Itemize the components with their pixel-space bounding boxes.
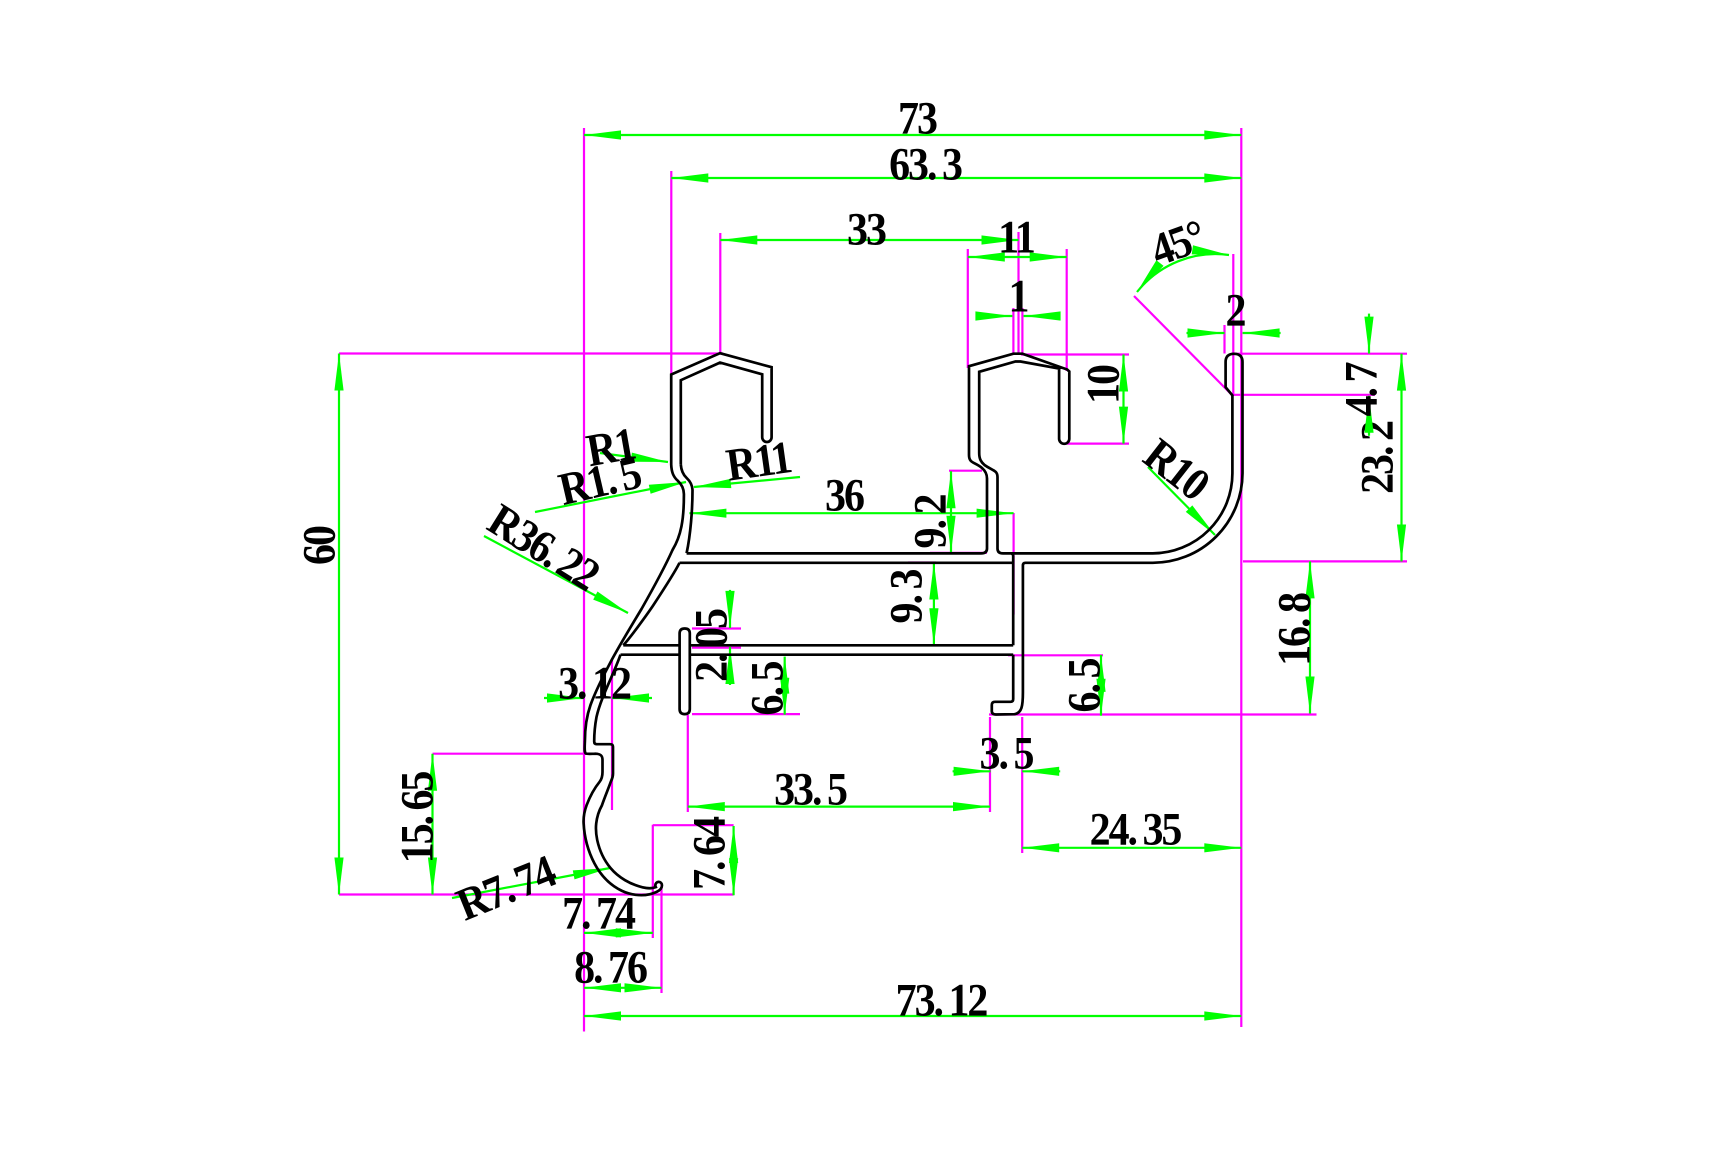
dimension 9.3 xyxy=(933,563,935,646)
svg-text:3. 5: 3. 5 xyxy=(980,728,1034,779)
profile: inner surface of R36.22 curve (upper) xyxy=(681,465,693,554)
dimension 7.74 xyxy=(584,932,653,934)
dimension 3.12 (wall) xyxy=(544,697,584,699)
profile: lower web xyxy=(623,644,678,647)
dimension 3.5 (foot width) xyxy=(953,770,991,772)
svg-text:33. 5: 33. 5 xyxy=(774,764,847,815)
leader R11 fillet xyxy=(694,477,800,487)
dimension 23.2 xyxy=(1400,354,1402,562)
profile: inner surface of R36.22 curve (lower) xyxy=(623,563,679,646)
svg-text:2: 2 xyxy=(1226,285,1246,336)
svg-text:6. 5: 6. 5 xyxy=(1059,659,1110,713)
dimension 33.5 xyxy=(688,805,990,807)
leader R7.74 hook xyxy=(452,868,610,898)
dimension 8.76 xyxy=(584,987,662,989)
profile: vertical wall below shelf xyxy=(1011,553,1013,645)
45 deg angular dimension xyxy=(1137,254,1229,292)
svg-text:23. 2: 23. 2 xyxy=(1352,421,1403,494)
dimension 6.5 left (stub depth) xyxy=(784,657,786,715)
svg-text:7. 64: 7. 64 xyxy=(684,816,735,890)
svg-text:4. 7: 4. 7 xyxy=(1336,363,1387,417)
dimension 11 xyxy=(968,256,1067,258)
leader R36.22 curve xyxy=(484,536,628,613)
svg-text:R10: R10 xyxy=(1134,428,1219,510)
svg-text:73. 12: 73. 12 xyxy=(896,975,988,1026)
svg-text:R1. 5: R1. 5 xyxy=(554,447,646,515)
dimension 1 (slot width) xyxy=(982,315,1012,317)
svg-text:73: 73 xyxy=(898,93,937,144)
svg-text:16. 8: 16. 8 xyxy=(1269,593,1320,666)
dimension 24.35 xyxy=(1022,847,1241,849)
dimension 16.8 xyxy=(1309,561,1311,713)
dimension 73.12 (overall bottom width) xyxy=(584,1015,1241,1017)
svg-text:33: 33 xyxy=(847,204,886,255)
svg-text:36: 36 xyxy=(825,470,864,521)
svg-text:8. 76: 8. 76 xyxy=(574,942,647,993)
svg-text:60: 60 xyxy=(294,526,345,565)
dimension 36 xyxy=(689,512,1013,514)
svg-text:63. 3: 63. 3 xyxy=(889,139,962,190)
svg-text:24. 35: 24. 35 xyxy=(1090,804,1182,855)
leader R1.5 fillet xyxy=(535,482,686,512)
dimension 6.5 right (leg depth) xyxy=(1100,655,1102,716)
svg-text:15. 65: 15. 65 xyxy=(392,772,443,864)
svg-text:R11: R11 xyxy=(723,431,794,491)
extension lines xyxy=(583,128,585,1032)
svg-text:11: 11 xyxy=(998,212,1034,263)
dimension 7.64 xyxy=(732,826,734,895)
dimension 2.05 xyxy=(729,590,731,628)
dimension 15.65 xyxy=(431,754,433,895)
svg-text:1: 1 xyxy=(1009,271,1028,322)
profile: shelf, center channel, fin, right wall with R10 corner, chamfered lip and bottom leg xyxy=(687,354,1243,715)
svg-text:9. 3: 9. 3 xyxy=(881,570,932,624)
svg-text:R7. 74: R7. 74 xyxy=(449,845,563,931)
dimension 9.2 xyxy=(950,471,952,552)
svg-text:7. 74: 7. 74 xyxy=(562,888,636,939)
svg-text:3. 12: 3. 12 xyxy=(558,658,631,709)
dimension 33 xyxy=(720,239,1018,241)
dimension 63.3 xyxy=(671,177,1241,179)
dimension 73 (overall width) xyxy=(584,134,1241,136)
leader R10 corner xyxy=(1148,467,1215,535)
profile: left hook wall, R36.22 curve, notch and bottom J-hook xyxy=(584,353,772,895)
profile: shelf bottom surface xyxy=(680,561,1014,564)
profile: T-stub rib xyxy=(680,629,690,715)
svg-text:10: 10 xyxy=(1078,365,1129,404)
dimension 4.7 (chamfer depth) xyxy=(1368,314,1370,354)
dimension 10 (fin depth) xyxy=(1122,355,1124,444)
svg-text:6. 5: 6. 5 xyxy=(742,662,793,716)
svg-text:9. 2: 9. 2 xyxy=(905,495,956,549)
dimension 2 (lip width) xyxy=(1187,332,1225,334)
dimension 60 (overall height) xyxy=(338,354,340,895)
leader R1 fillet xyxy=(600,453,668,462)
